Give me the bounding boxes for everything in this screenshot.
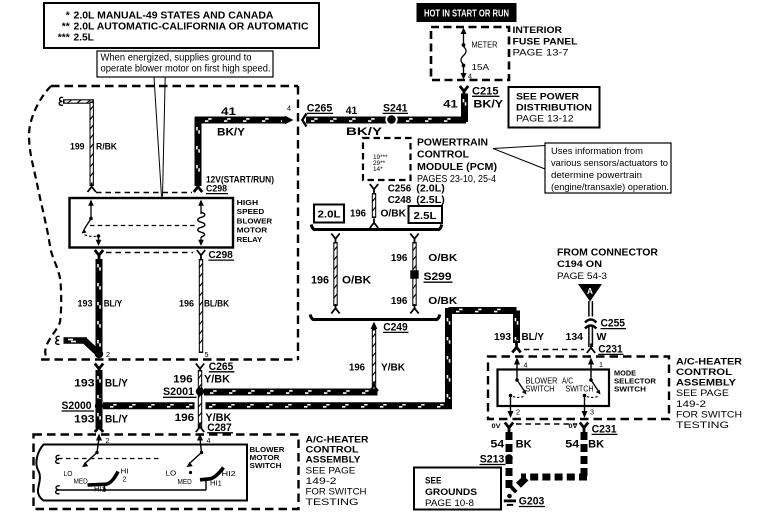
- svg-text:METER: METER: [472, 41, 498, 50]
- wire 196 O/BK left branch: [311, 234, 371, 314]
- see grounds box: [414, 468, 501, 510]
- svg-text:FOR SWITCH: FOR SWITCH: [676, 409, 742, 420]
- svg-text:CONTROL: CONTROL: [676, 367, 732, 377]
- svg-text:operate blower motor on first: operate blower motor on first high speed…: [101, 63, 271, 74]
- svg-text:2: 2: [123, 475, 127, 484]
- svg-text:A: A: [587, 287, 593, 296]
- svg-text:C215: C215: [472, 85, 499, 97]
- legend box: engine applications: [44, 3, 319, 48]
- wire 196 O/BK right branch with S299: [391, 234, 458, 314]
- pin 2 arrow: [508, 406, 521, 418]
- svg-text:2.5L: 2.5L: [414, 210, 438, 222]
- svg-text:LO: LO: [166, 469, 177, 478]
- splice S2000: [62, 400, 129, 425]
- svg-text:41: 41: [443, 99, 458, 111]
- svg-text:C265: C265: [209, 361, 234, 373]
- wire 193 continuation curl bottom left: [56, 336, 98, 352]
- svg-text:196: 196: [391, 252, 408, 264]
- svg-text:196: 196: [179, 298, 194, 309]
- 2.0L tag: [314, 205, 344, 223]
- svg-text:O/BK: O/BK: [428, 295, 457, 307]
- svg-text:***: ***: [58, 32, 70, 43]
- svg-text:W: W: [597, 331, 607, 343]
- ground wire 54 BK right thick dashed: [513, 432, 588, 491]
- svg-text:2: 2: [106, 436, 110, 445]
- blower motor switch left half: [64, 451, 129, 494]
- svg-text:G203: G203: [519, 495, 545, 507]
- svg-text:193: 193: [494, 331, 511, 343]
- svg-text:C231: C231: [598, 343, 623, 355]
- connector C249 bus lower: [310, 315, 440, 334]
- svg-text:ASSEMBLY: ASSEMBLY: [306, 455, 361, 465]
- svg-text:SWITCH: SWITCH: [614, 385, 646, 394]
- connector bus upper: [311, 225, 442, 231]
- wire 199 R/BK thin with continuation curl: [59, 97, 117, 186]
- svg-text:FROM CONNECTOR: FROM CONNECTOR: [557, 247, 658, 259]
- svg-text:INTERIOR: INTERIOR: [513, 25, 563, 36]
- svg-text:BK/Y: BK/Y: [346, 126, 383, 138]
- svg-text:41: 41: [346, 105, 358, 117]
- svg-text:PAGE 13-12: PAGE 13-12: [516, 114, 574, 125]
- svg-text:HI2: HI2: [222, 469, 236, 478]
- interior fuse panel dashed box: [431, 25, 578, 80]
- svg-text:TESTING: TESTING: [676, 420, 729, 431]
- connector C298 top: [96, 184, 228, 195]
- from connector C194 note: [557, 247, 658, 282]
- svg-text:BK/Y: BK/Y: [217, 126, 246, 138]
- A/C-heater control assembly text bottom left: [306, 435, 369, 509]
- svg-text:LO: LO: [64, 469, 73, 478]
- svg-text:SEE PAGE: SEE PAGE: [676, 388, 729, 399]
- svg-text:various sensors/actuators to: various sensors/actuators to: [551, 158, 668, 169]
- svg-text:BK: BK: [588, 439, 604, 451]
- A/C-heater control assembly dashed box right: [488, 357, 669, 420]
- relay contact left: [82, 200, 102, 247]
- blower switch contact: [509, 378, 527, 406]
- svg-text:DISTRIBUTION: DISTRIBUTION: [516, 102, 592, 113]
- relay actuation dashed link: [90, 225, 196, 227]
- svg-text:*: *: [66, 10, 70, 21]
- svg-text:C194 ON: C194 ON: [557, 259, 602, 270]
- high speed blower motor relay box: [70, 198, 273, 248]
- wire 41 BK/Y thick from relay to C265 male arrow: [195, 104, 294, 187]
- svg-text:C265: C265: [307, 103, 333, 115]
- svg-text:C287: C287: [207, 422, 232, 434]
- svg-text:O/BK: O/BK: [381, 208, 407, 220]
- svg-text:SWITCH: SWITCH: [526, 384, 555, 393]
- 2.5L tag: [409, 206, 443, 223]
- svg-text:C298: C298: [208, 249, 233, 261]
- svg-text:2: 2: [106, 350, 110, 359]
- module dashed boundary box: [29, 86, 298, 360]
- svg-text:HIGH: HIGH: [237, 198, 259, 207]
- svg-text:SWITCH: SWITCH: [250, 461, 282, 470]
- svg-text:4: 4: [524, 361, 528, 370]
- A/C-heater control assembly text right: [676, 356, 742, 431]
- connector C231 top: [494, 331, 624, 355]
- svg-text:TESTING: TESTING: [306, 497, 359, 508]
- svg-text:4: 4: [287, 104, 291, 113]
- svg-text:134: 134: [566, 331, 584, 343]
- wire 193 BL/Y thick path S2000 to C231 pin 4: [103, 308, 518, 407]
- svg-text:193: 193: [74, 377, 95, 389]
- svg-text:S2000: S2000: [62, 400, 92, 412]
- wire 196 Y/BK thin riser to C249: [349, 322, 405, 392]
- connector C265 top: [302, 103, 383, 139]
- svg-text:41: 41: [221, 106, 236, 118]
- switch mechanical dashed link: [58, 458, 160, 460]
- connector C215: [443, 85, 504, 110]
- svg-text:4: 4: [207, 436, 211, 445]
- svg-text:5: 5: [205, 350, 209, 359]
- svg-text:(engine/transaxle) operation.: (engine/transaxle) operation.: [551, 182, 669, 193]
- svg-text:PAGE 10-8: PAGE 10-8: [425, 498, 474, 509]
- svg-text:199: 199: [70, 142, 85, 152]
- wire 41 BK/Y thick from C265 through S241 to C215: [306, 94, 466, 123]
- svg-text:GROUNDS: GROUNDS: [425, 487, 477, 498]
- svg-text:BL/Y: BL/Y: [105, 377, 129, 389]
- svg-text:MODULE (PCM): MODULE (PCM): [417, 161, 497, 173]
- connector C231 bottom: [491, 423, 618, 451]
- svg-text:C249: C249: [383, 321, 408, 333]
- svg-text:S213: S213: [480, 453, 505, 465]
- svg-text:MOTOR: MOTOR: [237, 226, 268, 235]
- note box: relay function with pointer to relay: [97, 51, 273, 197]
- svg-text:SEE PAGE: SEE PAGE: [306, 466, 356, 477]
- svg-text:196: 196: [311, 275, 329, 287]
- fork 199 wire at C298: [88, 183, 96, 193]
- splice S2001: [163, 386, 231, 424]
- blower motor switch right half: [166, 451, 236, 488]
- ground wire 54 BK left thick dashed: [506, 432, 513, 492]
- blower switch pin 2 left: [96, 434, 110, 453]
- svg-text:HOT IN START OR RUN: HOT IN START OR RUN: [424, 7, 509, 19]
- svg-text:1: 1: [599, 360, 603, 369]
- svg-text:C248: C248: [388, 194, 412, 206]
- svg-text:CONTROL: CONTROL: [417, 149, 470, 161]
- connector C298 bottom: [95, 249, 234, 261]
- svg-text:BK: BK: [516, 439, 532, 451]
- svg-text:14*: 14*: [373, 166, 383, 173]
- blower switch assembly dashed box: [34, 435, 299, 510]
- svg-text:2.5L: 2.5L: [74, 32, 94, 43]
- svg-text:HI1: HI1: [210, 479, 222, 488]
- svg-text:C256: C256: [388, 183, 412, 195]
- svg-text:FOR SWITCH: FOR SWITCH: [306, 487, 367, 498]
- svg-text:A/C-HEATER: A/C-HEATER: [676, 356, 742, 366]
- see power distribution box: [509, 87, 600, 128]
- svg-text:When energized, supplies groun: When energized, supplies ground to: [101, 52, 252, 63]
- relay coil right: [198, 200, 205, 247]
- svg-text:(2.5L): (2.5L): [416, 194, 445, 206]
- splice S241: [383, 103, 408, 126]
- svg-text:S2001: S2001: [163, 386, 194, 398]
- svg-text:FUSE PANEL: FUSE PANEL: [513, 37, 578, 48]
- svg-text:RELAY: RELAY: [237, 235, 263, 244]
- mode selector pin 1: [588, 358, 603, 381]
- wire 134 W double line to C231: [566, 301, 607, 347]
- continuation squiggles: [56, 455, 60, 463]
- wire 196 BL/BK thin relay to pin 5: [179, 259, 229, 353]
- svg-text:149-2: 149-2: [306, 476, 337, 487]
- svg-text:POWERTRAIN: POWERTRAIN: [417, 136, 488, 148]
- wire 193 BL/Y thick relay to junction: [78, 259, 123, 352]
- blower switch pin 4: [514, 358, 528, 381]
- svg-text:ASSEMBLY: ASSEMBLY: [676, 378, 736, 388]
- note box: PCM info with pointer: [493, 143, 671, 193]
- svg-text:SEE: SEE: [425, 476, 442, 487]
- blower switch pin 4 right: [197, 434, 211, 453]
- svg-text:Uses information from: Uses information from: [551, 146, 643, 157]
- svg-text:PAGE 13-7: PAGE 13-7: [513, 47, 569, 58]
- svg-text:196: 196: [173, 374, 193, 386]
- wire 196 O/BK thin PCM to bus: [350, 193, 406, 228]
- connector C256/C248 below PCM: [370, 183, 445, 207]
- power banner: HOT IN START OR RUN: [417, 4, 516, 22]
- svg-text:R/BK: R/BK: [96, 142, 117, 152]
- svg-text:2.0L: 2.0L: [318, 209, 342, 221]
- svg-text:2.0L MANUAL-49 STATES AND: 2.0L MANUAL-49 STATES AND CANADA: [74, 10, 275, 21]
- junction node pin 2 / pin 5: [95, 350, 209, 359]
- svg-text:149-2: 149-2: [676, 399, 706, 410]
- svg-text:S241: S241: [383, 103, 408, 115]
- off-page triangle A: [578, 284, 602, 302]
- svg-text:**: **: [62, 21, 70, 32]
- svg-text:BL/Y: BL/Y: [104, 298, 123, 309]
- svg-text:54: 54: [491, 439, 506, 451]
- svg-text:BLOWER: BLOWER: [237, 216, 273, 225]
- svg-text:MED: MED: [178, 477, 192, 486]
- svg-text:(2.0L): (2.0L): [416, 183, 445, 195]
- svg-text:15A: 15A: [472, 63, 490, 72]
- wire 196 Y/BK thick from S2001 to C249 riser: [204, 391, 378, 393]
- blower motor switch label: [250, 445, 286, 470]
- svg-text:196: 196: [350, 208, 366, 220]
- connector C255: [585, 318, 626, 330]
- svg-text:BK/Y: BK/Y: [473, 99, 503, 111]
- svg-text:196: 196: [391, 295, 408, 307]
- svg-text:3: 3: [590, 408, 594, 417]
- A/C switch contact: [583, 378, 601, 406]
- svg-text:O/BK: O/BK: [428, 252, 457, 264]
- svg-text:SPEED: SPEED: [237, 207, 265, 216]
- svg-text:O/BK: O/BK: [342, 275, 371, 287]
- fork 12V wire at C298: [194, 183, 202, 193]
- svg-text:CONTROL: CONTROL: [306, 444, 359, 454]
- svg-text:PAGE 54-3: PAGE 54-3: [557, 271, 607, 282]
- switch common line: [58, 478, 206, 490]
- svg-text:SWITCH: SWITCH: [566, 384, 594, 393]
- svg-text:2: 2: [516, 408, 520, 417]
- svg-text:C255: C255: [601, 318, 626, 330]
- pin 3 arrow: [582, 406, 595, 418]
- connector C287 forks: [95, 422, 233, 434]
- splice S213: [480, 453, 513, 465]
- svg-text:0V: 0V: [492, 423, 502, 430]
- ground G203: [504, 494, 545, 508]
- svg-text:BL/Y: BL/Y: [522, 331, 545, 343]
- svg-text:MED: MED: [74, 477, 88, 486]
- svg-text:54: 54: [565, 439, 580, 451]
- wire 196 Y/BK thin C265-S2001-C287: [198, 370, 202, 428]
- svg-text:2.0L AUTOMATIC-CALIFORNIA OR: 2.0L AUTOMATIC-CALIFORNIA OR AUTOMATIC: [74, 21, 310, 32]
- svg-text:SEE POWER: SEE POWER: [516, 91, 579, 102]
- svg-text:BL/BK: BL/BK: [204, 298, 229, 309]
- svg-text:196: 196: [349, 361, 365, 373]
- svg-text:Y/BK: Y/BK: [204, 374, 230, 386]
- blower switch solid box with torn edge: [36, 445, 247, 501]
- svg-text:S299: S299: [424, 271, 452, 283]
- connector C265 harness forks below module: [74, 361, 234, 390]
- svg-text:193: 193: [74, 413, 95, 425]
- powertrain control module dashed box: [363, 136, 497, 185]
- svg-text:determine powertrain: determine powertrain: [551, 170, 642, 181]
- fuse 15A METER: [461, 28, 498, 81]
- svg-text:A/C-HEATER: A/C-HEATER: [306, 435, 369, 445]
- wire 193 BL/Y thick C265-S2000-C287: [98, 370, 100, 428]
- svg-text:BL/Y: BL/Y: [105, 413, 129, 425]
- svg-text:C231: C231: [592, 423, 617, 435]
- svg-text:196: 196: [175, 412, 195, 424]
- svg-text:4: 4: [468, 72, 472, 81]
- svg-text:193: 193: [78, 298, 93, 309]
- svg-text:Y/BK: Y/BK: [381, 361, 405, 373]
